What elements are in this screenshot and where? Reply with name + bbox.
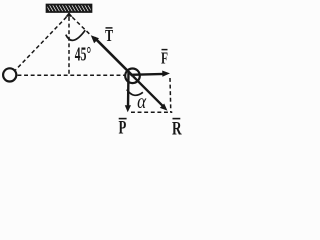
vector R arrow bbox=[133, 76, 167, 110]
label P with bar bbox=[119, 118, 127, 139]
svg-text:α: α bbox=[137, 91, 146, 113]
wire: dashed upper part of string at 45 deg bbox=[71, 16, 90, 34]
node: ball at displaced position bbox=[125, 69, 140, 84]
wire: dashed bottom horizontal of parallelogram bbox=[131, 111, 172, 113]
vector F arrow bbox=[131, 71, 171, 77]
wire: dashed horizontal path line bbox=[18, 74, 125, 76]
vector T arrow bbox=[91, 35, 133, 76]
label F with bar bbox=[161, 49, 168, 68]
alpha angle arc bbox=[127, 90, 143, 96]
svg-text:R: R bbox=[172, 119, 182, 137]
wire: dashed vertical from attachment bbox=[68, 17, 70, 75]
label T with bar bbox=[105, 26, 114, 45]
ceiling bbox=[44, 4, 94, 13]
attachment pin bbox=[65, 12, 72, 16]
svg-text:F: F bbox=[161, 49, 168, 68]
svg-text:T: T bbox=[105, 26, 114, 45]
wire: dashed right vertical of parallelogram bbox=[169, 78, 172, 113]
vector P arrow bbox=[125, 72, 131, 113]
wire: dashed string to rest ball bbox=[16, 17, 67, 70]
label R with bar bbox=[172, 119, 182, 140]
node: ball at rest position bbox=[3, 68, 16, 81]
svg-text:45°: 45° bbox=[75, 44, 91, 66]
45 degree angle arc bbox=[66, 30, 85, 40]
svg-text:P: P bbox=[119, 118, 127, 138]
